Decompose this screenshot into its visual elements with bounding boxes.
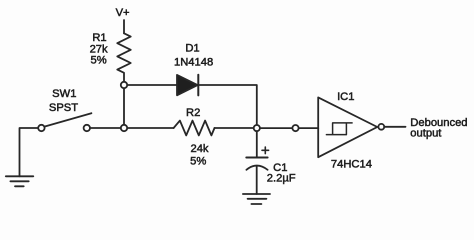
wire V+ lead to R1 top xyxy=(123,20,125,33)
C1 polarity plus sign xyxy=(262,147,269,154)
svg-text:5%: 5% xyxy=(91,55,107,67)
wire SW1 to junction xyxy=(90,127,121,129)
wire R1 node down to lower junction xyxy=(123,88,125,124)
wire input node to IC1 xyxy=(299,127,318,129)
resistor R1 xyxy=(117,33,130,81)
svg-text:1N4148: 1N4148 xyxy=(174,56,213,68)
svg-text:R1: R1 xyxy=(92,32,106,44)
wire R1 node to D1 anode xyxy=(127,84,177,86)
node at D1/R2/C1 junction xyxy=(254,125,260,131)
wire node down to capacitor C1 xyxy=(256,131,258,157)
ground (under C1) xyxy=(243,194,270,204)
wire junction to R2 xyxy=(127,127,173,129)
svg-text:5%: 5% xyxy=(190,155,206,167)
switch SW1 xyxy=(38,113,91,131)
svg-text:24k: 24k xyxy=(190,143,208,155)
svg-text:V+: V+ xyxy=(116,7,130,19)
svg-text:2.2µF: 2.2µF xyxy=(267,173,296,185)
wire node to IC1 input node xyxy=(260,127,292,129)
svg-text:R2: R2 xyxy=(186,107,200,119)
svg-text:SPST: SPST xyxy=(49,102,78,114)
wire R2 to node xyxy=(215,127,254,129)
ground (left) xyxy=(6,176,34,186)
diode D1 xyxy=(177,75,198,96)
node IC1 input pin xyxy=(292,125,298,131)
inverter output bubble xyxy=(378,124,384,130)
svg-text:output: output xyxy=(410,128,442,140)
svg-text:27k: 27k xyxy=(90,43,108,55)
hysteresis symbol inside IC1 xyxy=(326,123,352,135)
capacitor C1 plates xyxy=(246,158,267,170)
svg-text:SW1: SW1 xyxy=(52,88,76,100)
wire left ground up and to SW1 contact xyxy=(20,128,39,176)
svg-text:D1: D1 xyxy=(185,43,199,55)
node junction on main wire below R1 xyxy=(121,125,127,131)
wire C1 to ground xyxy=(256,166,258,194)
svg-text:IC1: IC1 xyxy=(337,91,354,103)
wire D1 cathode to corner and down to node xyxy=(198,85,256,125)
resistor R2 xyxy=(174,121,215,136)
svg-text:74HC14: 74HC14 xyxy=(331,158,372,170)
inverter IC1 triangle xyxy=(318,97,377,157)
wire output xyxy=(384,126,405,128)
node junction at R1 bottom xyxy=(121,82,127,88)
